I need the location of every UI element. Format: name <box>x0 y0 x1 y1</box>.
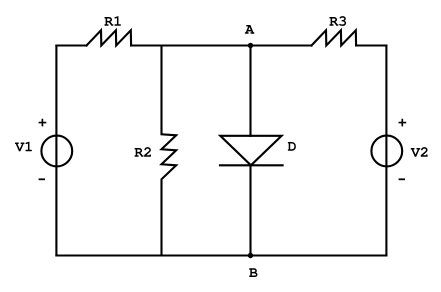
label node A <box>245 25 255 34</box>
wire top middle segment R1 to A <box>131 44 311 46</box>
label R1 <box>104 16 121 26</box>
V1 minus sign <box>39 178 45 180</box>
diode D triangle <box>220 136 281 166</box>
label R3 <box>329 16 346 26</box>
V2 plus sign <box>399 119 407 127</box>
node A junction dot <box>248 43 253 48</box>
voltage source V1 circle <box>41 136 72 167</box>
diode D cathode bar <box>220 164 283 166</box>
label V2 <box>411 147 428 157</box>
voltage source V2 circle <box>371 136 402 167</box>
wire diode anode from node A <box>249 46 251 136</box>
resistor R1 <box>87 30 132 45</box>
label node B <box>249 268 257 277</box>
wire top-right segment <box>356 44 386 46</box>
resistor R2 <box>162 46 177 256</box>
label R2 <box>134 147 150 157</box>
label diode D <box>288 142 296 151</box>
wire left vertical <box>55 46 57 256</box>
V1 plus sign <box>39 119 47 127</box>
resistor R3 <box>312 30 357 45</box>
V2 minus sign <box>399 178 405 180</box>
label V1 <box>15 142 32 152</box>
wire diode cathode to node B <box>249 165 251 255</box>
wire right vertical <box>385 46 387 256</box>
node B junction dot <box>248 253 253 258</box>
wire top-left segment <box>56 44 86 46</box>
wire bottom <box>56 254 386 256</box>
